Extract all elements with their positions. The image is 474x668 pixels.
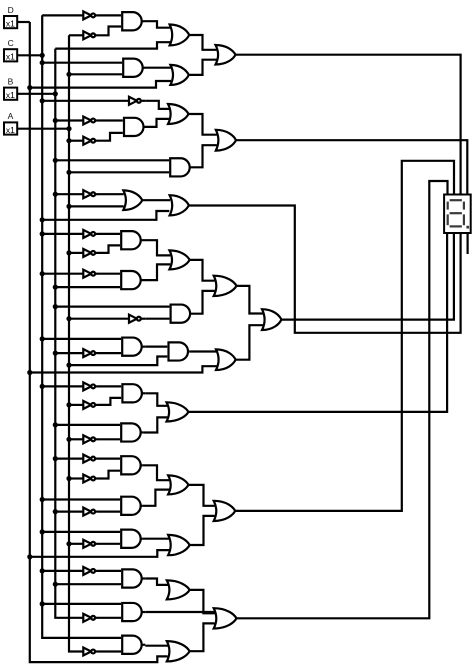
wire NOT20 out to AND2g.in2 [98, 617, 121, 619]
bus B down + bottom feed NOT20 [55, 49, 83, 618]
node C y100.8 [40, 98, 45, 103]
AND gate AND2f [121, 497, 141, 515]
inverter NOT3 (C) y=100.8 [129, 97, 137, 105]
node C y219.8 [40, 217, 45, 222]
wire A tap to AND5d.in2 [69, 357, 167, 366]
input pin C (x1) [4, 49, 17, 61]
wire A tap to NOT14 [69, 438, 83, 440]
svg-text:x1: x1 [6, 52, 15, 62]
wire seg-g to display T1 [237, 181, 448, 618]
wire C top to NOT1 [42, 14, 83, 16]
inverter NOT17 (B) y=511.6 [83, 508, 91, 516]
inverter NOT2 (A) y=35.3 [83, 31, 91, 39]
wire AND2g out to ORg.in1b [145, 611, 214, 613]
svg-text:x1: x1 [6, 125, 15, 135]
wire NOT17 out to AND2f.in2 [98, 511, 120, 513]
OR gate ORg (segment g) [214, 608, 237, 628]
node B y194.2 [53, 192, 58, 197]
node C y62.7 [40, 60, 45, 65]
inverter NOT7 (C) y=233.9 [83, 230, 91, 238]
node A y140.7 [66, 138, 71, 143]
wire A tap to OR1c.in2 [69, 205, 124, 207]
inverter NOT12 (C) y=386.4 [83, 382, 91, 390]
node C y233.9 [40, 231, 45, 236]
wire C pin to bus [17, 54, 42, 56]
wire OR1f out to ORf.in1 [188, 485, 214, 506]
wire A pin to bus [17, 128, 69, 130]
svg-text:A: A [8, 111, 14, 121]
OR gate ORnd (segment d) [262, 309, 281, 330]
wire AND1g out to OR1g.in1 [145, 579, 168, 585]
AND gate AND1g [122, 569, 141, 587]
inverter NOT5 (A) y=140.7 [83, 137, 91, 145]
AND gate AND5d [169, 342, 188, 360]
input pin A (x1) [4, 122, 17, 134]
node B y160.3 [53, 158, 58, 163]
node B y306.6 [53, 304, 58, 309]
wire B tap to AND2d.in2 [55, 286, 120, 288]
wire seg-b to display T4 [236, 140, 467, 194]
inverter NOT10 (A) y=318.7 [129, 315, 137, 323]
wire B tap to NOT17 [55, 511, 83, 513]
inverter NOT4 (B) y=120.5 [83, 117, 91, 125]
OR gate OR1c [123, 190, 142, 210]
wire C tap to NOT12 [42, 385, 83, 387]
node A y478.5 [66, 476, 71, 481]
wire ORd out to ORnd.in1 [237, 286, 264, 314]
wire B tap to NOT11 [55, 352, 83, 354]
bus A down + bottom feed NOT21 [69, 35, 83, 651]
wire NOT1 out to AND1a.in1 [98, 14, 121, 16]
OR gate OR1f [168, 475, 188, 494]
wire NOT10 out to AND3d.in2 [146, 318, 170, 320]
wire A tap to NOT10 [69, 318, 129, 320]
wire NOT14 out to AND2e.in2 [98, 438, 120, 440]
wire NOT7 out to AND1d.in1 [98, 233, 120, 235]
inverter NOT16 (A) y=478.5 [83, 475, 91, 483]
wire AND1f out to OR1f.in1 [143, 465, 169, 480]
inverter NOT18 (A) y=543.8 [83, 540, 91, 548]
wire AND2d out to OR1d.in2 [142, 264, 171, 280]
wire AND3b out to ORb.in2 [191, 145, 217, 167]
wire B tap to AND1g.in2 [55, 583, 121, 585]
bus D down + bottom feed to OR2g.in2 [30, 22, 168, 662]
inverter NOT9 (C) y=273.7 [83, 270, 91, 278]
node A y74.3 [66, 72, 71, 77]
wire B tap to AND3d.in1 [55, 306, 169, 308]
wire AND1e out to ORne.in1 [145, 393, 167, 406]
wire NOT6 out to OR1c.in1 [98, 193, 124, 195]
node A y318.7 [66, 316, 71, 321]
node C y570.9 [40, 568, 45, 573]
OR gate OR1d [169, 250, 189, 269]
inverter NOT15 (B) y=458.6 [83, 455, 91, 463]
wire AND3d out to ORd.in2 [191, 291, 215, 314]
wire NOT13 out up to AND1e.in2 [98, 398, 121, 405]
OR gate OR1g [167, 580, 190, 599]
wire OR3d out up to ORnd.in2 [236, 325, 264, 360]
wire OR1g out to ORg.in1 [190, 590, 215, 613]
wire A tap to AND2a.in2 [69, 73, 122, 75]
node C y531.9 [40, 529, 45, 534]
node B y424.9 [53, 422, 58, 427]
wire B top line to OR1a.in2 [55, 42, 171, 48]
inverter NOT20 (B) y=617.8 [83, 614, 91, 622]
inverter NOT1 (C) y=15.4 [83, 11, 91, 19]
node A y172.3 [66, 170, 71, 175]
inverter NOT13 (A) y=404.9 [83, 401, 91, 409]
wire B tap to NOT15 [55, 458, 83, 460]
inverter NOT6 (B) y=194.2 [83, 190, 91, 198]
wire B tap to AND2e.in1 [55, 424, 120, 426]
wire NOT4 out to AND2b.in1 [98, 119, 123, 121]
7-segment display U1 [444, 195, 471, 234]
node C y273.7 [40, 271, 45, 276]
wire NOT21 out to AND3g.in2 [98, 650, 121, 652]
wire C tap to NOT3 [42, 100, 129, 102]
OR gate ORd [214, 276, 237, 296]
wire AND3g out to OR2g.in1 [145, 645, 168, 647]
AND gate AND2e [121, 423, 140, 441]
OR gate ORa (segment a) [216, 45, 236, 65]
OR gate OR3d [216, 349, 236, 370]
node C tap [40, 53, 45, 58]
node B y458.6 [53, 456, 58, 461]
wire A tap to AND3b.in2 [69, 171, 169, 173]
wire seg-e to display B1 [188, 233, 447, 412]
OR gate OR2f [168, 535, 190, 555]
input pin B (x1) [4, 88, 17, 100]
wire AND2b out to OR2b.in2 [144, 119, 170, 127]
AND gate AND1a [122, 12, 142, 30]
input pin D (x1) [4, 16, 17, 28]
OR gate OR2c (segment c) [170, 195, 189, 215]
AND gate AND2d [121, 271, 141, 289]
wire C tap to AND4d.in1 [42, 338, 121, 340]
AND gate AND2g [122, 603, 142, 621]
wire NOT19 out to AND1g.in1 [98, 570, 121, 572]
AND gate AND4d [122, 338, 142, 356]
wire D tap to OR2f.in2 [30, 550, 169, 557]
node C y603.9 [40, 601, 45, 606]
wire seg-d to display B2 [281, 233, 454, 320]
wire NOT9 out to AND2d.in1 [98, 273, 120, 275]
svg-text:B: B [8, 76, 14, 86]
wire C tap to AND2f.in1 [42, 498, 120, 500]
AND gate AND3f [121, 530, 140, 548]
wire dp stub [467, 233, 469, 254]
AND gate AND2b [124, 118, 143, 136]
wire AND3f out to OR2f.in1 [143, 538, 169, 540]
wire AND2a out to OR1b.in1 [145, 67, 171, 69]
wire A top to NOT2 [69, 34, 83, 36]
wire NOT12 out to AND1e.in1 [98, 385, 121, 387]
node B y353.1 [53, 351, 58, 356]
wire AND1a out to OR1a.in1 [144, 21, 171, 28]
inverter NOT21 (A) y=651.5 [83, 648, 91, 656]
wire NOT3 out to OR2b.in1 [146, 101, 169, 109]
wire OR2f out to ORf.in2 [190, 516, 215, 545]
node B y511.6 [53, 509, 58, 514]
OR gate OR2b [168, 104, 189, 124]
node A y439.3 [66, 437, 71, 442]
wire seg-a to display T3 [236, 55, 461, 195]
OR gate OR2g [167, 641, 190, 661]
wire C tap to OR2c.in2 [42, 211, 169, 220]
wire C tap to NOT19 [42, 570, 83, 572]
wire NOT11 out to AND4d.in2 [98, 352, 121, 354]
wire NOT5 out up to AND2b.in2 [98, 133, 123, 141]
wire OR2g out up to ORg.in2 [190, 623, 215, 651]
node C y499.5 [40, 497, 45, 502]
AND gate AND3g [122, 636, 141, 654]
OR gate OR1a [170, 25, 190, 46]
AND gate AND1d [121, 231, 141, 249]
OR gate ORf (segment f) [214, 501, 236, 521]
node B y287.1 [53, 285, 58, 290]
node A y206.4 [66, 204, 71, 209]
wire C tap to AND2a.in1 [42, 62, 122, 64]
wire A tap to NOT16 [69, 477, 83, 479]
wire AND1d out to OR1d.in1 [142, 240, 171, 255]
node D y372.5 [27, 370, 32, 375]
wire NOT15 out to AND1f.in1 [98, 458, 120, 460]
wire A tap to NOT13 [69, 404, 83, 406]
wire OR2b out to ORb.in1 [189, 114, 217, 135]
wire NOT8 out up to AND1d.in2 [98, 245, 120, 253]
svg-text:C: C [8, 38, 14, 48]
bus C down + bottom feed AND3g.in1 [42, 15, 121, 638]
node B tap [53, 91, 58, 96]
wire AND5d out to OR3d.in1 [189, 350, 217, 352]
wire seg-c to display B3 [189, 206, 461, 333]
wire C tap to NOT7 [42, 233, 83, 235]
wire AND2e out to ORne.in2 [144, 417, 168, 432]
wire A tap to NOT5 [69, 140, 83, 142]
wire D tap line to OR1b.in2 [30, 81, 171, 88]
AND gate AND3d [171, 305, 191, 323]
AND gate AND1f [121, 456, 140, 474]
wire C tap to AND2g.in1 [42, 603, 121, 605]
node A y404.9 [66, 402, 71, 407]
node C y338.9 [40, 336, 45, 341]
OR gate ORne (segment e) [167, 402, 189, 421]
wire NOT2 out up to AND1a.in2 [98, 27, 121, 36]
wire AND4d out to AND5d.in1 [145, 346, 167, 348]
wire OR1c out to OR2c.in1 [142, 199, 170, 201]
AND gate AND3b [170, 158, 190, 176]
wire OR1b out to ORa.in2 [189, 60, 217, 75]
wire NOT16 out up to AND1f.in2 [98, 471, 120, 479]
wire B tap to NOT4 [55, 119, 83, 121]
svg-text:x1: x1 [6, 90, 15, 100]
inverter NOT8 (A) y=252.9 [83, 249, 91, 257]
OR gate ORb (segment b) [216, 130, 236, 151]
svg-text:x1: x1 [6, 18, 15, 28]
node D y87.6 [27, 85, 32, 90]
node A tap [66, 126, 71, 131]
wire A tap to NOT18 [69, 543, 83, 545]
wire B tap to NOT6 [55, 193, 83, 195]
wire D tap to OR3d.in2 [30, 366, 217, 372]
wire B tap to AND3b.in1 [55, 159, 169, 161]
node C y386.4 [40, 384, 45, 389]
wire seg-f to display T2 [235, 161, 454, 511]
wire NOT18 out to AND3f.in2 [98, 543, 120, 545]
wire AND2f out to OR1f.in2 [143, 490, 169, 506]
node A y252.9 [66, 250, 71, 255]
wire C tap to NOT9 [42, 273, 83, 275]
node B y120.5 [53, 118, 58, 123]
node B y584.2 [53, 582, 58, 587]
wire OR1d out to ORd.in1 [190, 260, 215, 281]
inverter NOT19 (C) y=570.9 [83, 567, 91, 575]
inverter NOT14 (A) y=439.3 [83, 435, 91, 443]
wire A tap to NOT8 [69, 252, 83, 254]
wire C tap to AND3f.in1 [42, 531, 120, 533]
wire D pin to bus [17, 21, 30, 23]
wire OR1a out to ORa.in1 [189, 35, 216, 50]
node A y543.8 [66, 541, 71, 546]
svg-text:D: D [8, 5, 14, 15]
OR gate OR1b [170, 65, 188, 85]
AND gate AND1e [122, 384, 141, 402]
AND gate AND2a [123, 59, 142, 77]
node A y365.1 [66, 363, 71, 368]
node D y556.8 [27, 554, 32, 559]
inverter NOT11 (B) y=353.1 [83, 349, 91, 357]
wire B pin to bus [17, 93, 55, 95]
